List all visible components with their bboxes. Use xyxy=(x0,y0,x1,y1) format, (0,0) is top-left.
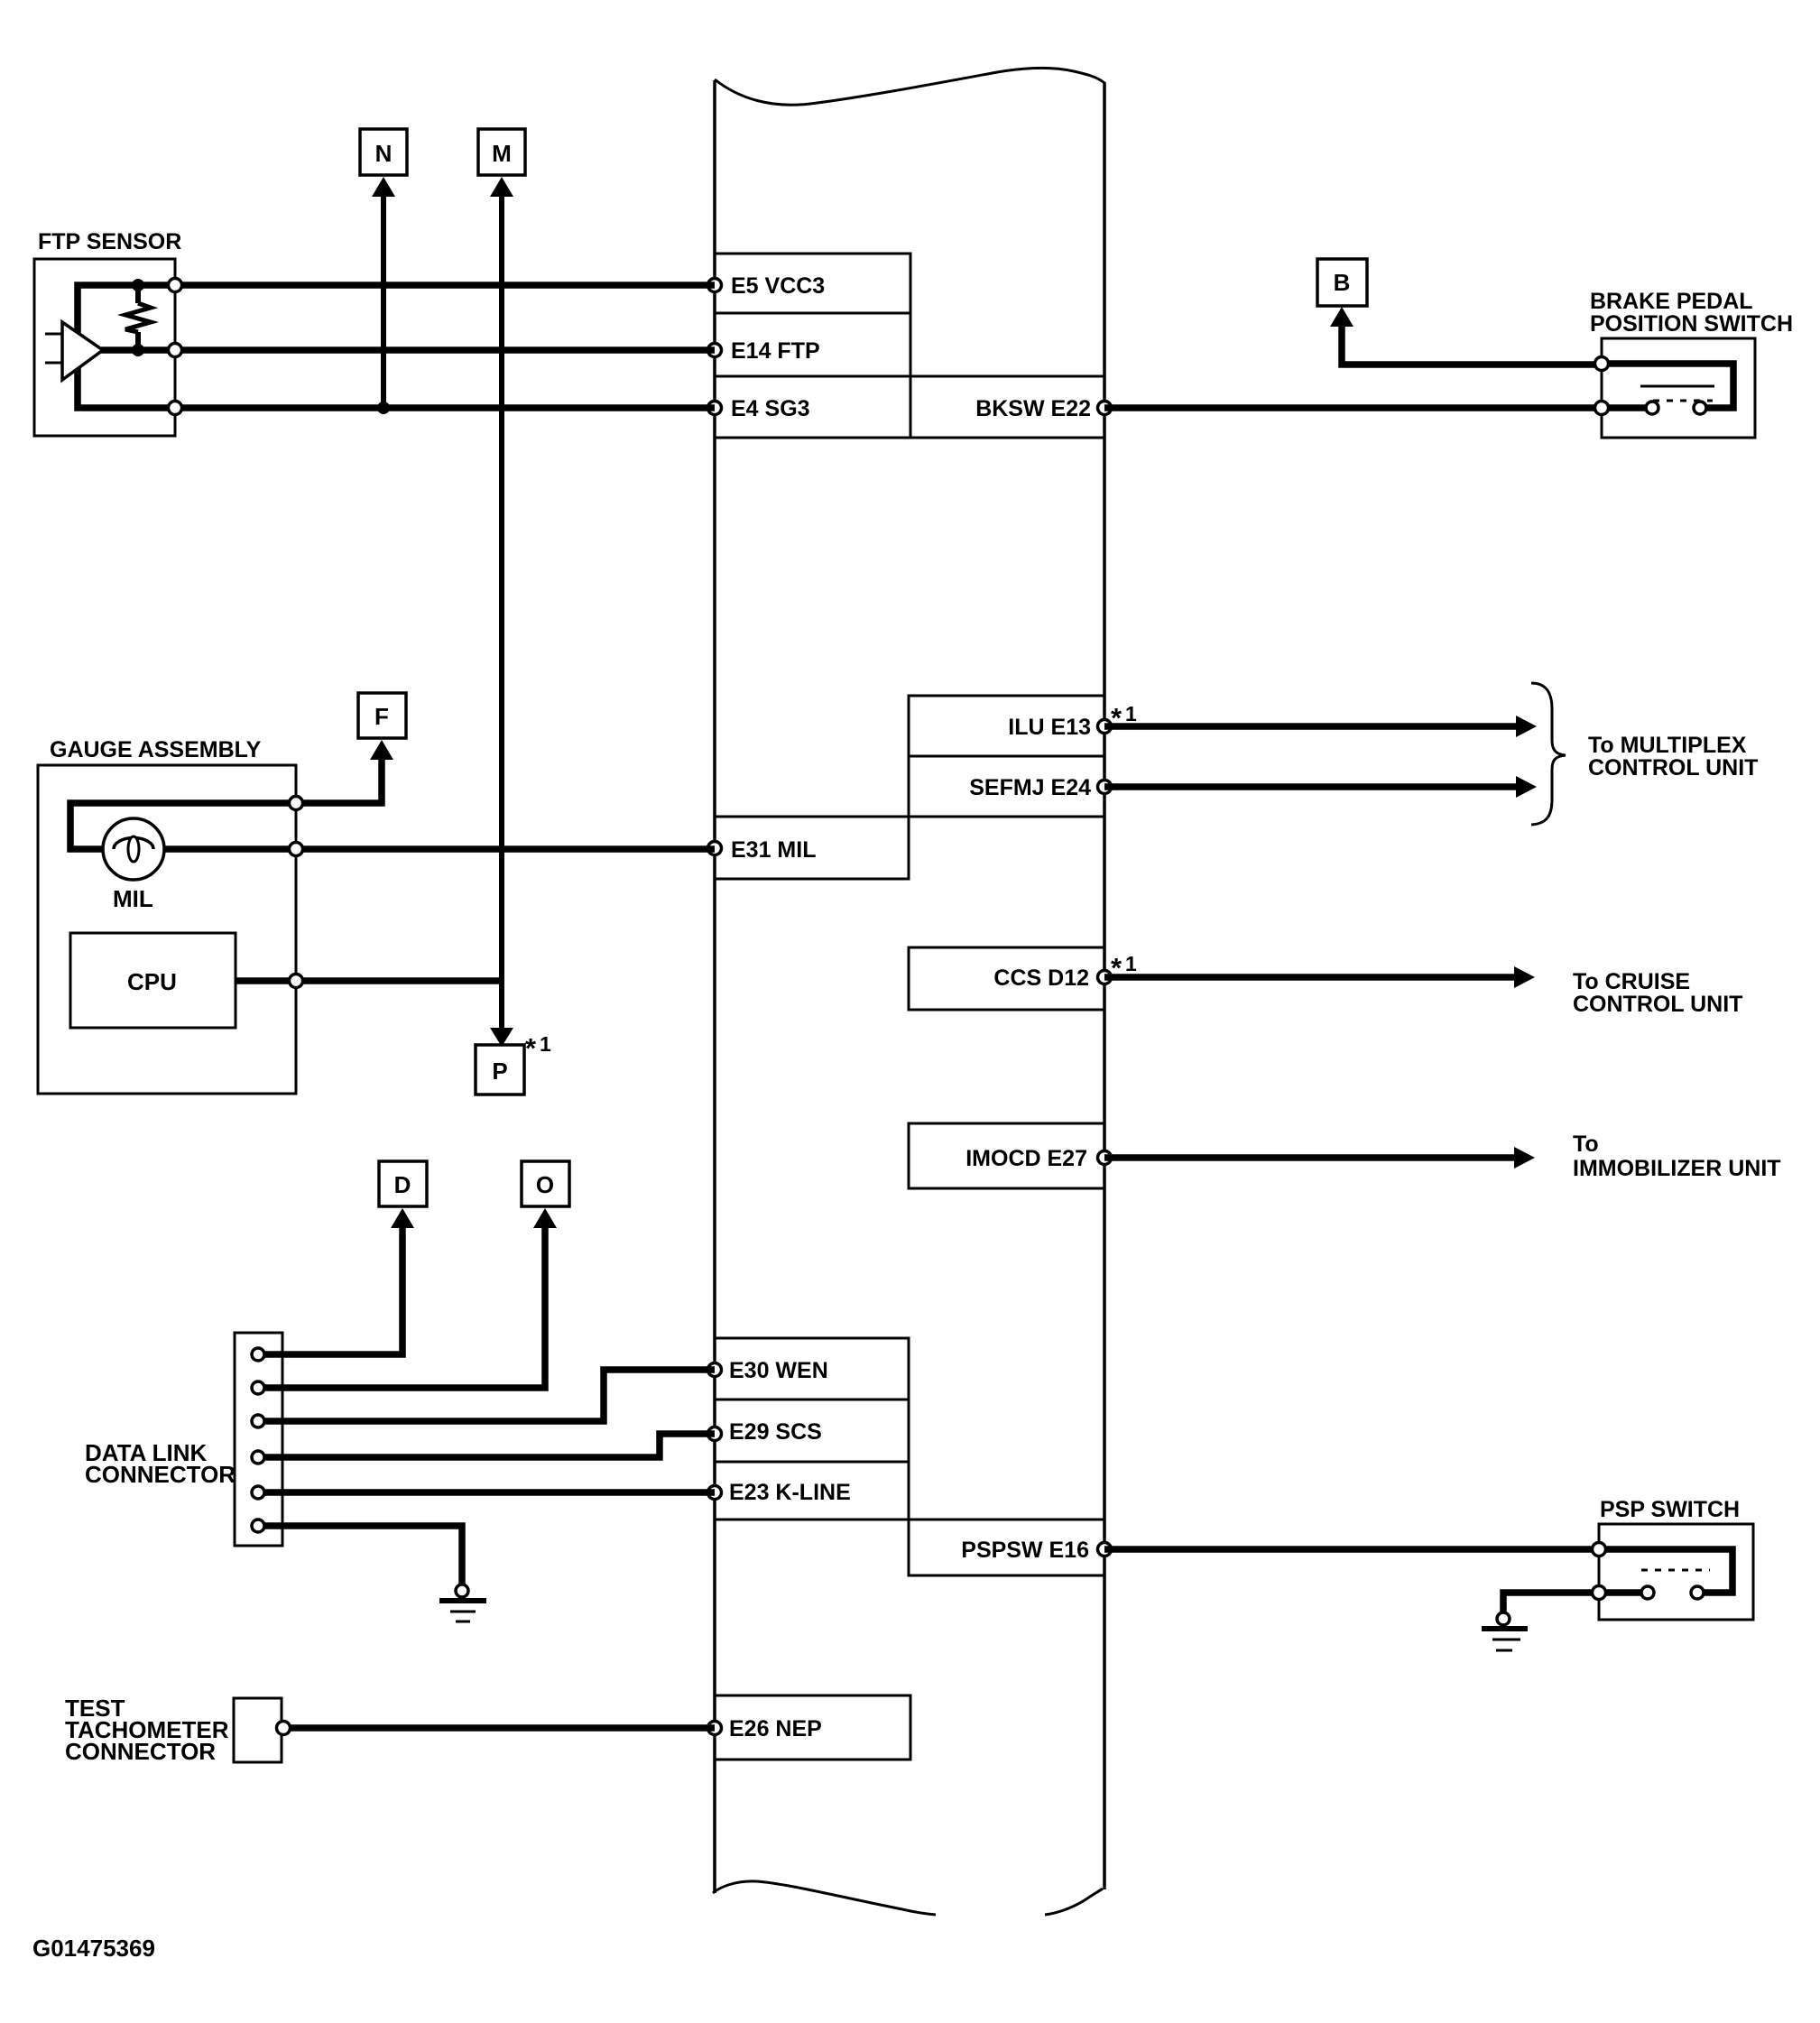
pin terminal E29 xyxy=(708,1427,722,1441)
svg-text:O: O xyxy=(536,1171,554,1198)
arrowhead ILU wire xyxy=(1516,716,1537,737)
svg-text:N: N xyxy=(375,140,393,167)
pin terminal ILU E13 xyxy=(1098,720,1112,734)
svg-text:MIL: MIL xyxy=(113,885,153,912)
brake switch internal wire xyxy=(1602,364,1733,408)
svg-text:1: 1 xyxy=(1125,952,1137,975)
CPU box xyxy=(70,933,236,1028)
pin terminal CCS D12 xyxy=(1098,971,1112,984)
wire gauge to connector F xyxy=(70,756,382,849)
svg-text:CONNECTOR: CONNECTOR xyxy=(85,1461,236,1488)
tach connector terminal xyxy=(277,1722,291,1735)
pin terminal E14 xyxy=(708,344,722,357)
note *1 beside P xyxy=(525,1032,551,1064)
terminal box ILU E13 xyxy=(909,696,1104,756)
strip torn-paper top edge xyxy=(715,68,1104,105)
FTP sensor internal supply/ground loop wire xyxy=(78,285,175,408)
PSP switch terminal lower xyxy=(1593,1586,1606,1600)
MIL lamp bulb xyxy=(103,818,164,880)
svg-text:CPU: CPU xyxy=(127,968,177,995)
arrowhead into P xyxy=(490,1028,513,1047)
brake switch contact right xyxy=(1694,402,1706,414)
FTP sensor element triangle xyxy=(62,322,103,380)
brake switch contact left xyxy=(1646,402,1658,414)
pin terminal PSPSW E16 xyxy=(1098,1543,1112,1557)
arrowhead into F xyxy=(370,740,393,760)
ECM connector strip left edge xyxy=(713,80,716,1893)
svg-text:B: B xyxy=(1334,269,1351,296)
svg-text:IMMOBILIZER UNIT: IMMOBILIZER UNIT xyxy=(1573,1156,1781,1181)
arrowhead into O xyxy=(533,1208,557,1228)
wire E4 SG3 (sensor to ECM) xyxy=(175,404,715,411)
svg-text:ILU E13: ILU E13 xyxy=(1008,715,1091,740)
terminal box IMOCD E27 xyxy=(909,1123,1104,1188)
svg-text:CONTROL UNIT: CONTROL UNIT xyxy=(1573,992,1742,1017)
terminal box E29 SCS xyxy=(715,1399,909,1462)
svg-text:CCS D12: CCS D12 xyxy=(993,965,1089,991)
wire SEFMJ E24 to multiplex control unit xyxy=(1104,783,1518,790)
svg-text:POSITION SWITCH: POSITION SWITCH xyxy=(1590,311,1793,337)
wire ILU E13 to multiplex control unit xyxy=(1104,723,1518,730)
wire DLC pin6 to ground xyxy=(264,1526,462,1584)
terminal box E4 SG3 xyxy=(715,376,910,438)
DLC pin 1 xyxy=(252,1348,264,1361)
terminal box E31 MIL xyxy=(715,817,909,879)
DLC pin 3 xyxy=(252,1415,264,1427)
svg-text:To MULTIPLEX: To MULTIPLEX xyxy=(1588,733,1747,758)
svg-text:E5 VCC3: E5 VCC3 xyxy=(731,273,825,299)
svg-text:D: D xyxy=(394,1171,411,1198)
svg-text:E26 NEP: E26 NEP xyxy=(729,1716,822,1741)
junction node N-wire on E4 SG3 xyxy=(377,402,390,414)
junction node on E5 wire xyxy=(132,279,144,291)
PSP switch contact left xyxy=(1641,1586,1654,1599)
svg-text:To: To xyxy=(1573,1132,1599,1157)
terminal box BKSW E22 xyxy=(910,376,1104,438)
brace grouping multiplex wires xyxy=(1531,683,1566,825)
terminal box CCS D12 xyxy=(909,947,1104,1010)
gauge assembly box xyxy=(38,765,296,1094)
brake switch internal wire to contact xyxy=(1602,404,1646,411)
wire IMOCD E27 to immobilizer unit xyxy=(1104,1154,1516,1161)
brake switch dashed linkage xyxy=(1653,400,1713,402)
svg-text:BKSW E22: BKSW E22 xyxy=(975,396,1091,421)
pin terminal IMOCD E27 xyxy=(1098,1151,1112,1165)
wire DLC pin3 to E30 WEN xyxy=(264,1370,715,1421)
svg-text:BRAKE PEDAL: BRAKE PEDAL xyxy=(1590,289,1753,314)
arrowhead SEFMJ wire xyxy=(1516,776,1537,798)
wire CPU to M/P line xyxy=(236,977,504,984)
arrowhead into N xyxy=(372,177,395,197)
To MULTIPLEX CONTROL UNIT label xyxy=(1588,733,1758,781)
terminal box E26 NEP xyxy=(715,1695,910,1760)
arrowhead IMOCD wire xyxy=(1514,1147,1535,1169)
wire PSPSW E16 (ECM to PSP switch) xyxy=(1104,1546,1599,1553)
ECM connector strip right edge xyxy=(1103,82,1106,1889)
DATA LINK CONNECTOR label xyxy=(85,1439,236,1488)
data link connector box xyxy=(235,1333,282,1546)
svg-text:G01475369: G01475369 xyxy=(32,1935,155,1962)
svg-text:To CRUISE: To CRUISE xyxy=(1573,969,1690,994)
pin terminal E26 xyxy=(708,1722,722,1735)
wire E31 MIL (lamp to ECM) xyxy=(153,845,715,853)
terminal box E5 VCC3 xyxy=(715,254,910,313)
svg-text:1: 1 xyxy=(540,1032,551,1056)
terminal box E23 K-LINE xyxy=(715,1462,909,1520)
wire to connector N xyxy=(381,193,386,408)
FTP sensor input stub lower xyxy=(45,362,62,365)
arrowhead into B xyxy=(1330,307,1353,327)
brake pedal position switch box xyxy=(1602,338,1755,438)
svg-text:SEFMJ E24: SEFMJ E24 xyxy=(969,775,1091,800)
arrowhead into D xyxy=(391,1208,414,1228)
svg-text:PSP SWITCH: PSP SWITCH xyxy=(1600,1497,1740,1522)
svg-text:*: * xyxy=(1111,952,1122,984)
svg-text:F: F xyxy=(374,703,389,730)
arrowhead CCS wire xyxy=(1514,966,1535,988)
connector B box xyxy=(1317,259,1367,306)
wire E26 NEP (tach connector to ECM) xyxy=(285,1724,715,1732)
brake switch terminal upper xyxy=(1595,357,1609,371)
PSP switch contact right xyxy=(1691,1586,1704,1599)
ground symbol (PSP switch) xyxy=(1482,1629,1528,1650)
connector P box xyxy=(476,1045,524,1095)
pin terminal E30 xyxy=(708,1363,722,1377)
gauge box edge terminal on MIL wire xyxy=(290,843,303,856)
junction node on E14 wire xyxy=(132,344,144,356)
FTP sensor input stub upper xyxy=(45,333,62,336)
wire DLC pin1 to connector D xyxy=(264,1224,402,1354)
DLC ground terminal circle xyxy=(456,1584,468,1597)
connector O box xyxy=(522,1161,569,1206)
brake switch actuator bar xyxy=(1640,385,1714,388)
svg-text:E31 MIL: E31 MIL xyxy=(731,837,816,863)
wire DLC pin5 to E23 K-LINE xyxy=(264,1489,715,1496)
BRAKE PEDAL POSITION SWITCH label xyxy=(1590,289,1793,337)
svg-text:CONTROL UNIT: CONTROL UNIT xyxy=(1588,755,1758,781)
svg-text:M: M xyxy=(492,140,512,167)
wire E5 VCC3 (sensor to ECM) xyxy=(175,282,715,289)
DLC pin 2 xyxy=(252,1381,264,1394)
DLC pin 4 xyxy=(252,1451,264,1464)
note *1 on ILU wire xyxy=(1111,702,1137,734)
PSP switch box xyxy=(1599,1524,1753,1620)
test tachometer connector box xyxy=(234,1698,282,1762)
resistor inside FTP sensor xyxy=(125,287,151,348)
svg-text:GAUGE ASSEMBLY: GAUGE ASSEMBLY xyxy=(50,737,262,762)
note *1 on CCS wire xyxy=(1111,952,1137,984)
svg-text:E29 SCS: E29 SCS xyxy=(729,1419,822,1445)
terminal box PSPSW E16 xyxy=(909,1520,1104,1575)
svg-text:P: P xyxy=(492,1058,507,1085)
wire from M down to connector P xyxy=(499,193,504,1030)
terminal box E14 FTP xyxy=(715,313,910,376)
gauge box edge terminal on CPU wire xyxy=(290,975,303,988)
svg-text:PSPSW E16: PSPSW E16 xyxy=(961,1538,1089,1563)
FTP sensor terminal pin 2 xyxy=(169,344,182,357)
PSP ground terminal circle xyxy=(1497,1612,1510,1625)
TEST TACHOMETER CONNECTOR label xyxy=(65,1695,229,1765)
pin terminal SEFMJ E24 xyxy=(1098,781,1112,794)
wire DLC pin2 to connector O xyxy=(264,1224,545,1388)
pin terminal E5 xyxy=(708,279,722,292)
arrowhead into M xyxy=(490,177,513,197)
wire E14 FTP (sensor to ECM) xyxy=(101,346,715,354)
wire DLC pin4 to E29 SCS xyxy=(264,1434,715,1457)
connector M box xyxy=(478,129,525,175)
DLC pin 6 xyxy=(252,1520,264,1532)
FTP sensor terminal pin 3 xyxy=(169,402,182,415)
To CRUISE CONTROL UNIT label xyxy=(1573,969,1742,1017)
svg-text:1: 1 xyxy=(1125,702,1137,725)
pin terminal E23 xyxy=(708,1486,722,1500)
FTP sensor terminal pin 1 xyxy=(169,279,182,292)
svg-text:E4 SG3: E4 SG3 xyxy=(731,396,810,421)
gauge box edge terminal on F wire xyxy=(290,797,303,810)
PSP switch wire to ground xyxy=(1503,1593,1648,1612)
wire BKSW E22 (ECM to brake switch) xyxy=(1104,404,1602,411)
terminal box SEFMJ E24 xyxy=(909,756,1104,817)
DLC pin 5 xyxy=(252,1486,264,1499)
pin terminal E31 xyxy=(708,842,722,855)
PSP switch dashed linkage xyxy=(1641,1569,1710,1572)
terminal box E30 WEN xyxy=(715,1338,909,1399)
svg-text:IMOCD E27: IMOCD E27 xyxy=(965,1146,1087,1171)
ground symbol (data link connector) xyxy=(439,1601,486,1621)
To IMMOBILIZER UNIT label xyxy=(1573,1132,1781,1181)
svg-text:E30 WEN: E30 WEN xyxy=(729,1358,828,1383)
svg-text:E14 FTP: E14 FTP xyxy=(731,338,820,364)
svg-text:CONNECTOR: CONNECTOR xyxy=(65,1738,216,1765)
connector D box xyxy=(379,1161,427,1206)
wire brake switch to connector B xyxy=(1342,323,1602,365)
connector F box xyxy=(358,693,406,738)
svg-text:FTP SENSOR: FTP SENSOR xyxy=(38,229,181,254)
wire CCS D12 to cruise control unit xyxy=(1104,974,1516,981)
svg-text:*: * xyxy=(525,1032,537,1064)
strip torn-paper bottom edge left segment xyxy=(713,1881,936,1915)
strip torn-paper bottom edge right segment xyxy=(1045,1889,1103,1915)
brake switch terminal lower xyxy=(1595,402,1609,415)
pin terminal BKSW E22 xyxy=(1098,402,1112,415)
svg-text:*: * xyxy=(1111,702,1122,734)
pin terminal E4 xyxy=(708,402,722,415)
svg-text:E23 K-LINE: E23 K-LINE xyxy=(729,1480,851,1505)
FTP sensor box xyxy=(34,259,175,436)
PSP switch internal wire xyxy=(1599,1549,1732,1593)
connector N box xyxy=(360,129,407,175)
PSP switch terminal upper xyxy=(1593,1543,1606,1557)
